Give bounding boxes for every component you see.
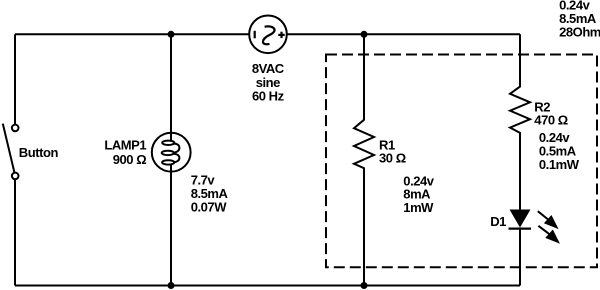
svg-text:900 Ω: 900 Ω [113, 152, 147, 167]
svg-text:0.1mW: 0.1mW [539, 157, 580, 172]
svg-text:LAMP1: LAMP1 [104, 137, 146, 152]
svg-text:30 Ω: 30 Ω [379, 151, 406, 166]
svg-text:8VAC: 8VAC [252, 61, 285, 76]
svg-text:470 Ω: 470 Ω [534, 113, 568, 128]
svg-text:1mW: 1mW [403, 200, 434, 215]
svg-text:28Ohm: 28Ohm [559, 25, 600, 40]
svg-text:Button: Button [19, 145, 59, 160]
svg-text:D1: D1 [490, 214, 506, 229]
svg-text:60 Hz: 60 Hz [252, 89, 285, 104]
svg-text:0.07W: 0.07W [191, 199, 228, 214]
